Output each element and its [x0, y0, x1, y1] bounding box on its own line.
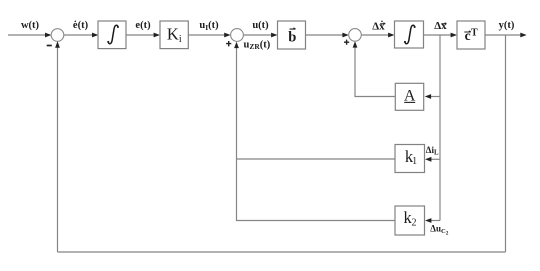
label uZR(t) — [244, 39, 271, 51]
vector b block — [278, 21, 306, 49]
gain block Ki — [160, 21, 188, 49]
svg-text:K: K — [167, 25, 179, 44]
wire cT to output y(t) — [485, 33, 527, 38]
output block cT — [457, 21, 485, 49]
svg-text:c: c — [465, 28, 471, 43]
wire S3 to integrator 2 — [361, 33, 394, 38]
gain block k2 — [395, 206, 425, 235]
wire outer feedback up into S1 — [55, 41, 60, 252]
label edot(t) — [73, 20, 89, 31]
minus sign at S1 — [47, 45, 52, 47]
wire Ki to summing junction S2 — [188, 33, 230, 38]
wire outer feedback bottom — [58, 251, 506, 253]
svg-text:T: T — [471, 28, 478, 39]
svg-text:1: 1 — [412, 156, 417, 167]
svg-text:i: i — [179, 34, 182, 45]
label w(t) — [21, 20, 40, 31]
wire w(t) input — [8, 33, 51, 38]
wire S1 to integrator 1 — [64, 33, 99, 38]
label uI(t) — [199, 20, 219, 32]
wire A branch from state tap — [425, 94, 440, 99]
node output tap — [505, 35, 507, 252]
wire A output to S3 — [353, 41, 396, 96]
svg-text:b: b — [288, 30, 296, 46]
svg-text:uI(t): uI(t) — [199, 20, 219, 32]
svg-text:Δx: Δx — [372, 21, 385, 33]
svg-text:2: 2 — [412, 218, 417, 229]
label delta x vector — [434, 20, 447, 32]
wire S2 to vector b block — [243, 33, 277, 38]
gain block k1 — [395, 145, 425, 173]
integrator block INT2 — [395, 21, 424, 48]
svg-text:u(t): u(t) — [252, 20, 269, 31]
wire k1 branch from state tap — [425, 157, 440, 162]
integrator block INT1 — [98, 21, 126, 49]
label e(t) — [135, 20, 151, 31]
wire k2 branch from state tap — [425, 218, 440, 223]
label u(t) — [252, 20, 269, 31]
wire state feedback up into S2 — [234, 42, 239, 159]
summing junction S3 — [349, 29, 362, 42]
label delta iL — [426, 145, 439, 157]
matrix block A — [395, 83, 423, 110]
node state tap on wire — [439, 35, 441, 221]
svg-text:ė(t): ė(t) — [73, 20, 89, 31]
svg-text:Δx: Δx — [434, 20, 447, 32]
summing junction S2 — [231, 29, 244, 42]
svg-text:y(t): y(t) — [499, 20, 515, 31]
wire b to summing junction S3 — [306, 33, 349, 38]
plus sign at S2 — [226, 41, 231, 46]
summing junction S1 — [51, 29, 64, 42]
label delta xdot vector — [372, 21, 385, 33]
label delta uC2 — [430, 224, 448, 237]
wire integrator 1 to Ki — [126, 33, 160, 38]
svg-text:e(t): e(t) — [135, 20, 151, 31]
wire k1 output to S2 vertical — [237, 158, 396, 160]
plus sign at S3 — [344, 40, 349, 45]
label y(t) — [499, 20, 515, 31]
wire integrator 2 to cT — [424, 33, 458, 38]
wire k2 output to S2 vertical — [237, 159, 396, 221]
svg-text:w(t): w(t) — [21, 20, 40, 31]
